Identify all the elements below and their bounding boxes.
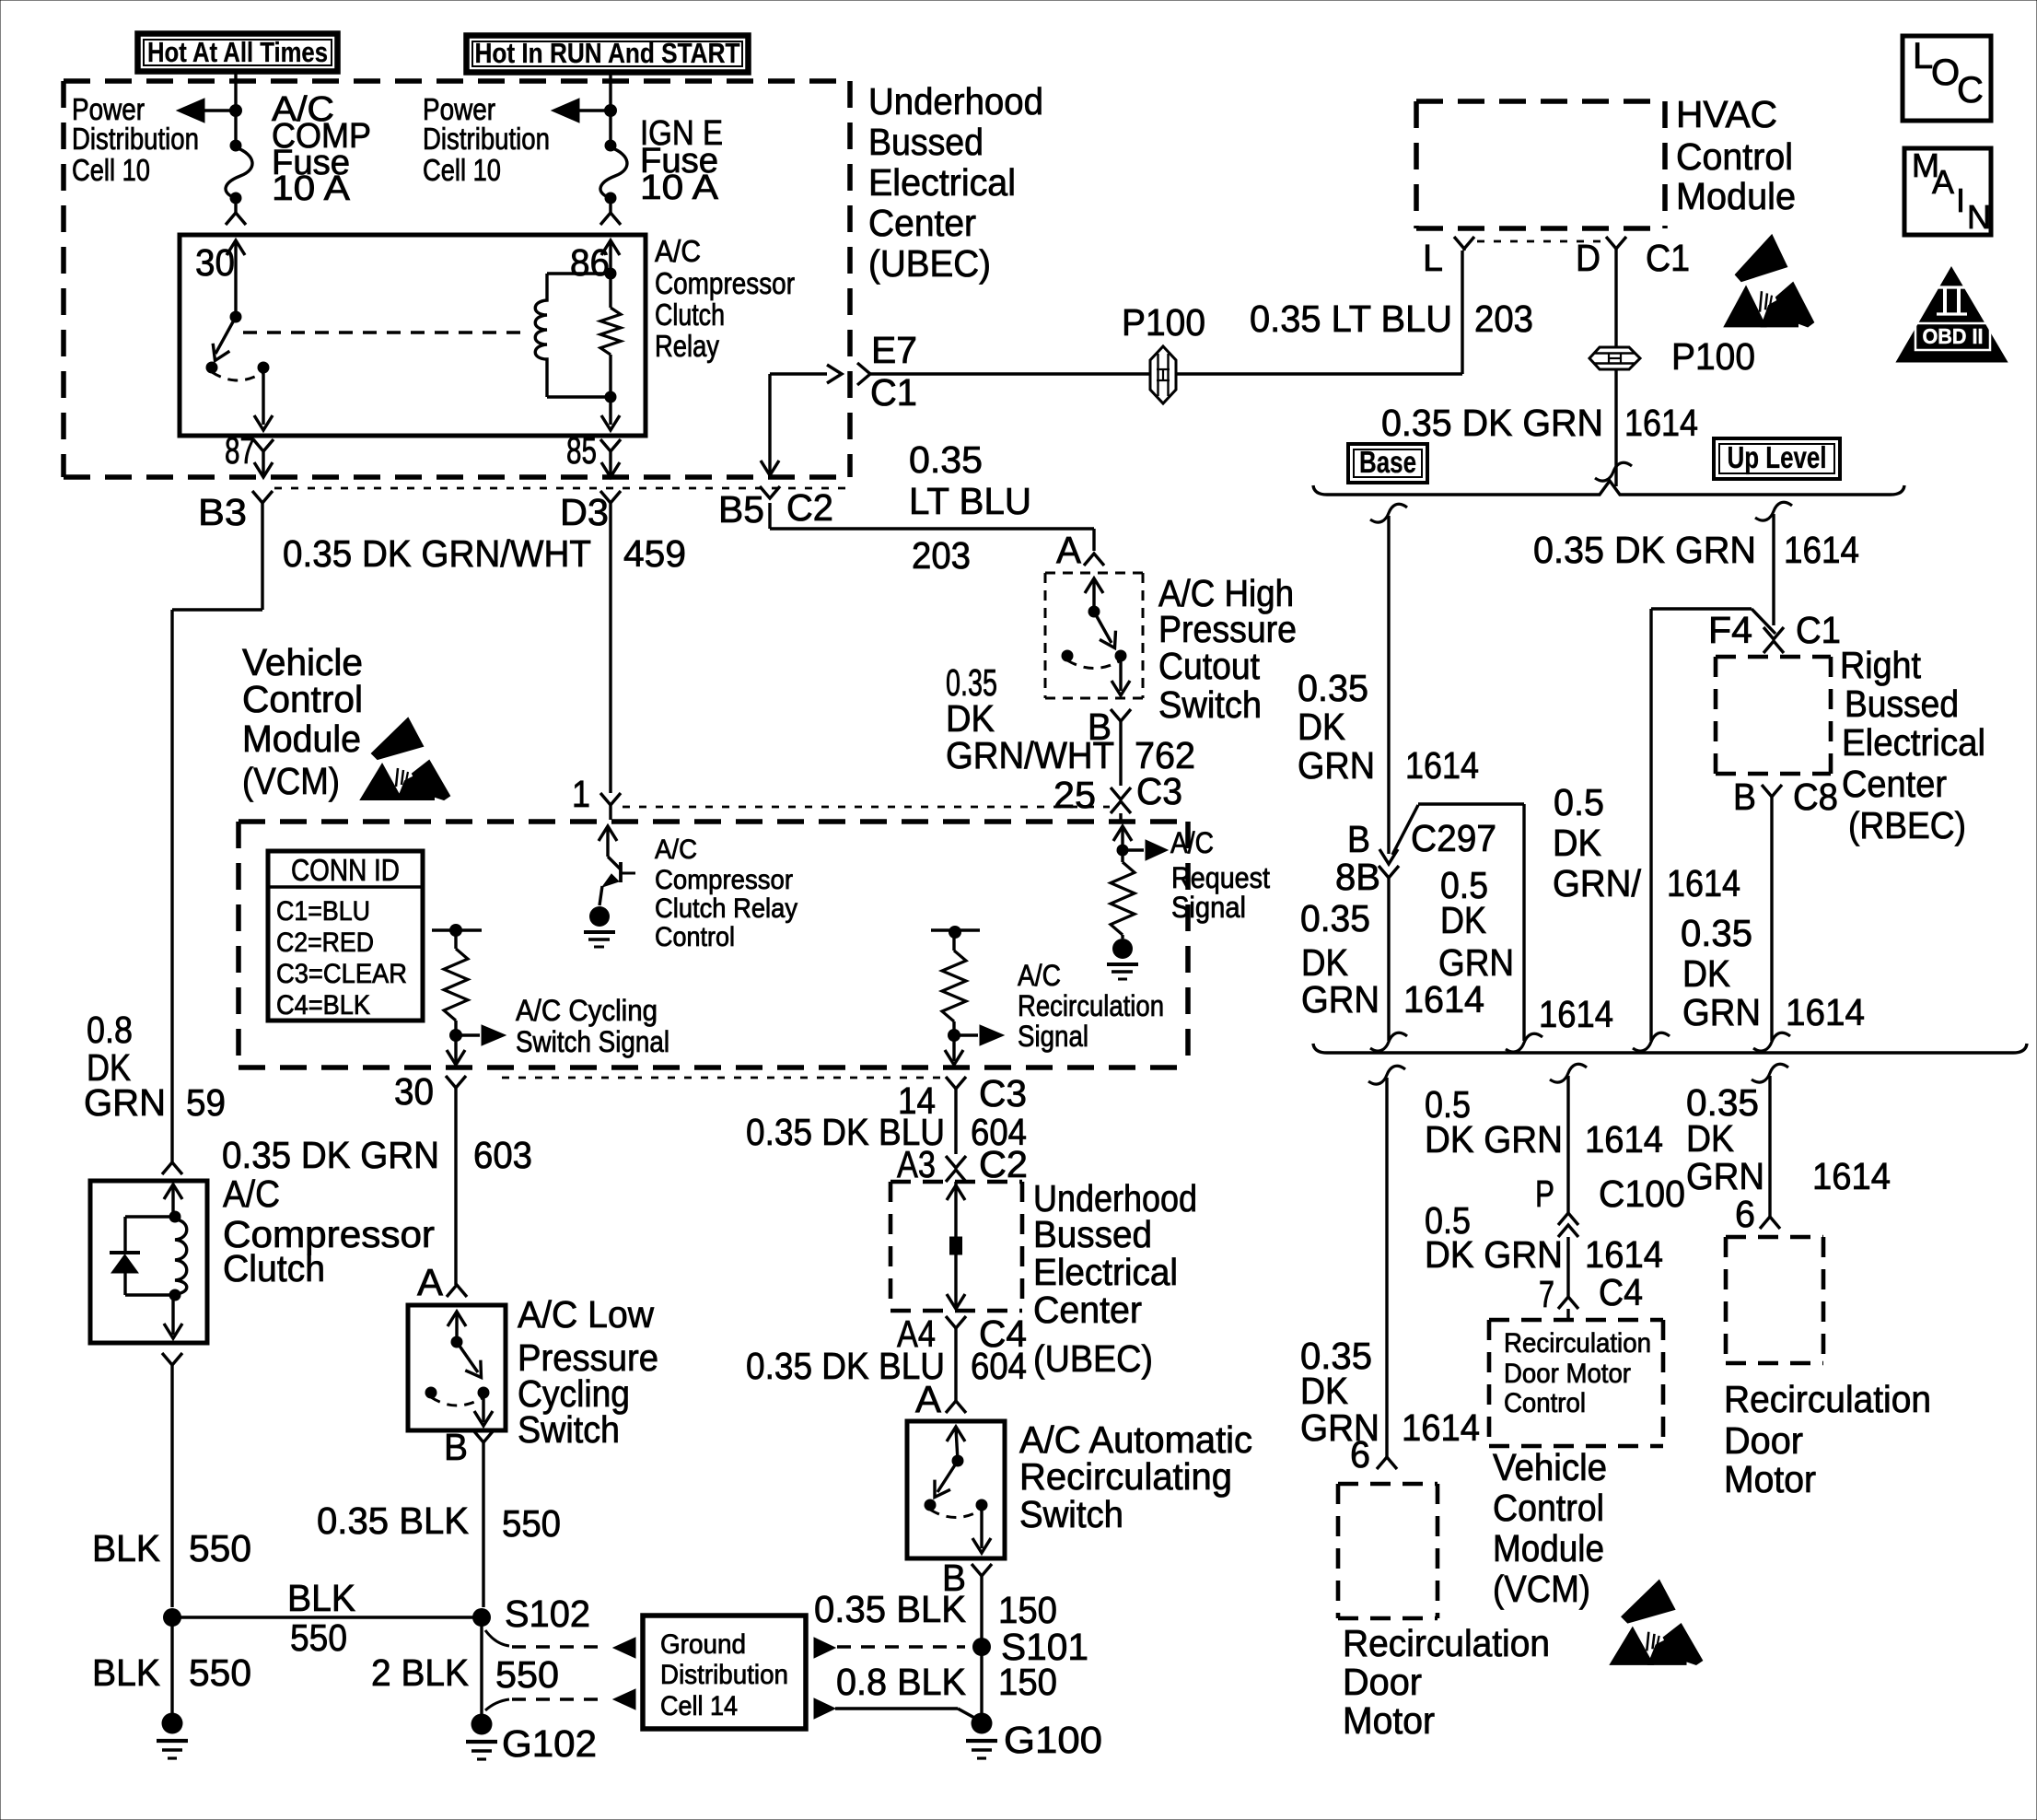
svg-text:0.35 DK GRN: 0.35 DK GRN bbox=[1381, 402, 1603, 444]
svg-text:550: 550 bbox=[189, 1651, 251, 1694]
wire: D3 to VCM pin 1 (459) bbox=[609, 503, 611, 793]
svg-text:Cutout: Cutout bbox=[1158, 645, 1261, 687]
left Recirculation Door Motor dashed box bbox=[1338, 1482, 1438, 1487]
svg-text:GRN/WHT: GRN/WHT bbox=[946, 734, 1114, 776]
svg-text:Motor: Motor bbox=[1343, 1699, 1435, 1742]
svg-text:C4: C4 bbox=[1599, 1271, 1643, 1313]
svg-text:BLK: BLK bbox=[92, 1651, 160, 1694]
svg-text:Hot At All Times: Hot At All Times bbox=[147, 36, 328, 68]
label box: Hot At All Times bbox=[138, 34, 338, 72]
svg-text:D3: D3 bbox=[560, 491, 609, 533]
svg-text:10 A: 10 A bbox=[272, 169, 351, 208]
svg-text:HVAC: HVAC bbox=[1676, 93, 1777, 135]
arrow and label: A/C Recirculation Signal bbox=[954, 1033, 978, 1036]
svg-text:86: 86 bbox=[570, 241, 610, 284]
svg-text:DK: DK bbox=[1686, 1117, 1734, 1160]
svg-text:1614: 1614 bbox=[1402, 1406, 1480, 1449]
svg-text:GRN: GRN bbox=[1686, 1155, 1764, 1197]
svg-text:A3: A3 bbox=[897, 1143, 936, 1185]
svg-text:Distribution: Distribution bbox=[72, 122, 199, 156]
svg-text:Switch: Switch bbox=[518, 1408, 620, 1451]
relay coil bbox=[547, 272, 611, 274]
svg-text:Switch: Switch bbox=[1019, 1493, 1123, 1535]
resistor: A/C cycling switch signal bbox=[432, 928, 482, 931]
svg-text:203: 203 bbox=[912, 534, 971, 577]
svg-text:Signal: Signal bbox=[1171, 891, 1246, 924]
svg-text:Door: Door bbox=[1724, 1419, 1803, 1462]
svg-text:1: 1 bbox=[572, 773, 590, 815]
svg-text:Bussed: Bussed bbox=[868, 121, 984, 163]
svg-text:A: A bbox=[915, 1378, 942, 1420]
wire: B5 to cutout switch A (0.35 LT BLU 203) bbox=[768, 503, 771, 529]
connector chevron below IGN E fuse bbox=[609, 204, 611, 213]
svg-text:6: 6 bbox=[1735, 1193, 1755, 1235]
svg-text:Electrical: Electrical bbox=[1033, 1251, 1178, 1293]
svg-text:Electrical: Electrical bbox=[1842, 721, 1985, 764]
right Recirculation Door Motor dashed box bbox=[1726, 1235, 1823, 1240]
connector chevron below A/C COMP fuse bbox=[234, 204, 237, 213]
wire: RBEC pin B to lower harness bbox=[1770, 797, 1773, 1041]
svg-text:Clutch: Clutch bbox=[223, 1247, 325, 1289]
svg-text:Vehicle: Vehicle bbox=[1493, 1446, 1607, 1488]
svg-text:P100: P100 bbox=[1122, 301, 1205, 344]
svg-text:59: 59 bbox=[186, 1081, 226, 1124]
fuse element inside UBEC box bbox=[954, 1182, 957, 1237]
svg-text:Distribution: Distribution bbox=[660, 1660, 788, 1690]
svg-text:A/C: A/C bbox=[223, 1172, 280, 1215]
svg-text:P: P bbox=[1535, 1172, 1554, 1215]
relay pin 85 leg bbox=[609, 397, 611, 425]
clutch relay control driver and ground bbox=[599, 826, 617, 841]
svg-text:Module: Module bbox=[1676, 175, 1796, 217]
svg-text:A/C: A/C bbox=[1018, 959, 1061, 992]
label box: Base bbox=[1348, 444, 1427, 483]
wire: Base branch lower bbox=[1387, 878, 1390, 1041]
svg-text:Motor: Motor bbox=[1724, 1458, 1816, 1500]
svg-text:Cell 10: Cell 10 bbox=[72, 153, 150, 187]
svg-text:A/C: A/C bbox=[655, 834, 697, 865]
symbol: LOC bbox=[1903, 36, 1991, 121]
svg-text:(VCM): (VCM) bbox=[242, 760, 340, 802]
svg-text:0.35 BLK: 0.35 BLK bbox=[317, 1499, 469, 1542]
svg-text:S102: S102 bbox=[505, 1592, 590, 1635]
svg-text:150: 150 bbox=[998, 1661, 1057, 1703]
svg-text:Recirculation: Recirculation bbox=[1504, 1328, 1651, 1359]
svg-text:0.8: 0.8 bbox=[87, 1009, 133, 1051]
svg-text:C297: C297 bbox=[1411, 817, 1496, 859]
svg-text:7: 7 bbox=[1539, 1273, 1554, 1315]
svg-text:550: 550 bbox=[189, 1527, 251, 1569]
wire: Base branch upper bbox=[1370, 504, 1407, 522]
svg-text:GRN: GRN bbox=[84, 1081, 166, 1124]
svg-text:OBD II: OBD II bbox=[1923, 324, 1984, 348]
svg-text:Compressor: Compressor bbox=[655, 266, 795, 300]
svg-text:Control: Control bbox=[655, 922, 735, 952]
svg-text:I: I bbox=[1956, 181, 1965, 219]
svg-text:(RBEC): (RBEC) bbox=[1848, 804, 1966, 846]
svg-text:G102: G102 bbox=[502, 1722, 597, 1765]
svg-text:1614: 1614 bbox=[1784, 529, 1859, 571]
relay switch contacts bbox=[230, 311, 242, 323]
wire: left recirculation door motor feed bbox=[1368, 1066, 1405, 1084]
svg-text:Right: Right bbox=[1840, 644, 1922, 686]
svg-text:550: 550 bbox=[502, 1502, 561, 1545]
svg-text:C: C bbox=[1957, 70, 1984, 111]
brace: harness split (top) bbox=[1313, 481, 1904, 495]
svg-text:Control: Control bbox=[1493, 1487, 1604, 1529]
svg-text:10 A: 10 A bbox=[640, 169, 719, 207]
svg-text:A: A bbox=[1932, 163, 1954, 201]
svg-text:C4=BLK: C4=BLK bbox=[276, 990, 370, 1021]
wire: Up Level branch bbox=[1755, 502, 1792, 520]
svg-text:(UBEC): (UBEC) bbox=[868, 242, 991, 285]
svg-text:0.35: 0.35 bbox=[1300, 897, 1370, 939]
connector face dashed line (VCM bottom) bbox=[502, 1077, 947, 1079]
svg-text:Clutch: Clutch bbox=[655, 297, 725, 332]
svg-text:Module: Module bbox=[1493, 1527, 1604, 1569]
svg-text:1614: 1614 bbox=[1539, 993, 1613, 1035]
svg-text:A/C: A/C bbox=[655, 234, 701, 268]
svg-text:0.35: 0.35 bbox=[1298, 667, 1368, 709]
svg-text:Up Level: Up Level bbox=[1728, 440, 1827, 474]
ESD symbol (VCM) bbox=[361, 718, 449, 799]
svg-text:30: 30 bbox=[195, 241, 235, 284]
splice P100 lens on D wire bbox=[1589, 347, 1640, 369]
svg-text:Recirculation: Recirculation bbox=[1018, 989, 1164, 1022]
svg-text:C100: C100 bbox=[1599, 1172, 1685, 1215]
fuse: IGN E Fuse 10 A bbox=[600, 147, 627, 197]
svg-text:DK GRN: DK GRN bbox=[1425, 1118, 1563, 1161]
arrow and label: A/C Cycling Switch Signal bbox=[456, 1033, 480, 1036]
junction dot left / S102 link wire bbox=[163, 1608, 181, 1627]
VCM Recirculation Door Motor Control dashed box bbox=[1489, 1318, 1663, 1323]
svg-text:Bussed: Bussed bbox=[1845, 682, 1959, 725]
svg-text:Electrical: Electrical bbox=[868, 161, 1016, 204]
svg-text:Recirculating: Recirculating bbox=[1019, 1455, 1232, 1498]
svg-text:B: B bbox=[1733, 776, 1756, 818]
svg-text:Signal: Signal bbox=[1018, 1020, 1088, 1053]
svg-text:P100: P100 bbox=[1671, 335, 1755, 378]
svg-text:BLK: BLK bbox=[92, 1527, 160, 1569]
svg-text:1614: 1614 bbox=[1403, 978, 1484, 1021]
svg-text:C1: C1 bbox=[1796, 609, 1841, 651]
arrows from Ground Distribution to S101 and G100 bbox=[814, 1638, 835, 1658]
svg-text:DK: DK bbox=[1553, 822, 1601, 864]
symbol: MAIN bbox=[1904, 148, 1991, 235]
relay pin 87 leg bbox=[262, 367, 264, 425]
arrow and label: A/C Request Signal bbox=[1123, 848, 1144, 851]
wire: right recirculation door motor feed bbox=[1752, 1064, 1788, 1082]
svg-text:1614: 1614 bbox=[1812, 1155, 1891, 1197]
svg-text:BLK: BLK bbox=[287, 1577, 355, 1619]
svg-text:87: 87 bbox=[225, 429, 255, 472]
svg-text:A: A bbox=[1056, 529, 1082, 571]
ground G102 bbox=[471, 1714, 493, 1735]
svg-text:Switch Signal: Switch Signal bbox=[516, 1025, 669, 1058]
wire: F4 branch to lower harness (0.5 DK GRN/ 1614) bbox=[1752, 609, 1775, 634]
svg-text:B3: B3 bbox=[198, 491, 247, 533]
svg-text:C3: C3 bbox=[979, 1072, 1027, 1114]
symbol: OBD II triangle bbox=[1898, 269, 2006, 361]
svg-text:0.35: 0.35 bbox=[909, 438, 983, 481]
svg-text:550: 550 bbox=[495, 1653, 559, 1696]
svg-text:0.35: 0.35 bbox=[1681, 912, 1752, 954]
svg-text:Hot In RUN And START: Hot In RUN And START bbox=[475, 37, 740, 69]
svg-text:A/C Cycling: A/C Cycling bbox=[516, 994, 658, 1027]
wire: VCM recirc door motor control feed bbox=[1550, 1064, 1587, 1082]
svg-text:Base: Base bbox=[1359, 445, 1416, 479]
label box: Up Level bbox=[1714, 438, 1840, 479]
fuse: A/C COMP Fuse 10 A bbox=[226, 147, 252, 197]
A/C request signal resistor and ground bbox=[1113, 826, 1132, 841]
svg-text:C2: C2 bbox=[786, 486, 833, 529]
svg-text:A/C: A/C bbox=[1170, 826, 1214, 859]
svg-text:DK: DK bbox=[1440, 899, 1486, 941]
svg-text:D: D bbox=[1576, 237, 1600, 279]
svg-text:G100: G100 bbox=[1004, 1719, 1102, 1761]
dashed links to Ground Distribution Cell 14 bbox=[485, 1630, 509, 1646]
svg-text:0.35 DK GRN/WHT: 0.35 DK GRN/WHT bbox=[283, 532, 591, 575]
UBEC module dashed box bbox=[64, 78, 850, 84]
ESD symbol (bottom VCM) bbox=[1611, 1581, 1702, 1664]
wire: recirc signal to pin 14 bbox=[952, 1035, 955, 1061]
svg-text:CONN ID: CONN ID bbox=[291, 853, 400, 887]
svg-text:C2=RED: C2=RED bbox=[276, 927, 374, 958]
svg-text:85: 85 bbox=[566, 429, 597, 472]
svg-text:C1: C1 bbox=[1646, 237, 1690, 279]
svg-text:Center: Center bbox=[868, 202, 976, 244]
wire: E7 to HVAC pin L (0.35 LT BLU 203) bbox=[870, 372, 1462, 375]
svg-text:A/C Low: A/C Low bbox=[518, 1293, 654, 1336]
svg-text:1614: 1614 bbox=[1405, 744, 1479, 787]
svg-text:0.35 DK GRN: 0.35 DK GRN bbox=[222, 1134, 439, 1176]
VCM dashed box bbox=[239, 819, 1188, 824]
svg-text:1614: 1614 bbox=[1667, 862, 1740, 904]
HVAC Control Module dashed box bbox=[1416, 99, 1665, 104]
wire: C297 branch (0.5 DK GRN 1614) bbox=[1418, 802, 1524, 805]
svg-text:0.35 LT BLU: 0.35 LT BLU bbox=[1250, 297, 1452, 340]
svg-text:F4: F4 bbox=[1708, 609, 1752, 651]
relay K1 box: A/C Compressor Clutch Relay bbox=[180, 235, 646, 436]
svg-text:550: 550 bbox=[290, 1616, 347, 1659]
svg-text:Door Motor: Door Motor bbox=[1504, 1359, 1631, 1389]
svg-text:Underhood: Underhood bbox=[868, 80, 1043, 122]
svg-text:L: L bbox=[1913, 36, 1933, 76]
arrow: to Power Distribution Cell 10 bbox=[198, 109, 236, 111]
svg-text:B5: B5 bbox=[718, 488, 764, 531]
svg-text:E7: E7 bbox=[871, 329, 917, 371]
wire: B3 to A/C compressor clutch (0.8 DK GRN 59) bbox=[261, 503, 263, 610]
svg-text:C3=CLEAR: C3=CLEAR bbox=[276, 959, 407, 989]
svg-text:Cell 14: Cell 14 bbox=[660, 1691, 738, 1721]
svg-text:(VCM): (VCM) bbox=[1493, 1568, 1590, 1610]
svg-text:25: 25 bbox=[1053, 774, 1096, 816]
arrow: to Power Distribution Cell 10 (ignition) bbox=[573, 109, 611, 111]
svg-text:30: 30 bbox=[394, 1070, 434, 1113]
strain relief on D wire bbox=[1595, 462, 1632, 481]
svg-text:Clutch Relay: Clutch Relay bbox=[655, 893, 797, 924]
svg-text:Center: Center bbox=[1033, 1289, 1142, 1331]
label box: Hot In RUN And START bbox=[467, 36, 749, 73]
svg-text:DK: DK bbox=[1682, 952, 1730, 995]
svg-text:GRN: GRN bbox=[1301, 978, 1379, 1021]
svg-text:8B: 8B bbox=[1335, 856, 1380, 898]
svg-text:6: 6 bbox=[1350, 1433, 1370, 1476]
svg-text:0.5: 0.5 bbox=[1554, 781, 1604, 823]
wire: HVAC pin D down (0.35 DK GRN 1614) bbox=[1614, 249, 1617, 346]
svg-text:Relay: Relay bbox=[655, 329, 719, 363]
svg-text:0.35 DK GRN: 0.35 DK GRN bbox=[1533, 529, 1756, 571]
svg-text:B: B bbox=[444, 1426, 468, 1468]
svg-text:O: O bbox=[1931, 52, 1960, 93]
svg-text:DK GRN: DK GRN bbox=[1425, 1233, 1563, 1276]
svg-text:203: 203 bbox=[1474, 297, 1533, 340]
svg-text:B: B bbox=[1347, 818, 1370, 860]
svg-text:Cell 10: Cell 10 bbox=[423, 153, 501, 187]
svg-text:Module: Module bbox=[242, 717, 361, 760]
table: CONN ID bbox=[268, 851, 423, 1021]
connector face dashed line (UBEC bottom) bbox=[274, 487, 845, 490]
connector face dashed line (HVAC) bbox=[1477, 240, 1609, 243]
svg-text:L: L bbox=[1423, 237, 1443, 279]
svg-text:C1: C1 bbox=[870, 371, 917, 414]
splice P100 grommet on LT BLU wire bbox=[1150, 346, 1176, 403]
svg-text:603: 603 bbox=[473, 1134, 532, 1176]
connector face dashed line (VCM top) bbox=[623, 806, 1110, 809]
svg-text:Control: Control bbox=[1676, 135, 1793, 178]
svg-text:Control: Control bbox=[1504, 1388, 1586, 1418]
svg-text:Recirculation: Recirculation bbox=[1343, 1622, 1550, 1664]
wire: battery feed into A/C COMP fuse bbox=[234, 74, 237, 146]
svg-text:N: N bbox=[1967, 198, 1991, 236]
svg-text:2 BLK: 2 BLK bbox=[371, 1651, 469, 1694]
svg-text:A: A bbox=[417, 1261, 444, 1303]
svg-text:604: 604 bbox=[971, 1345, 1027, 1387]
svg-text:1614: 1614 bbox=[1786, 991, 1865, 1033]
A/C Compressor Clutch component bbox=[162, 1162, 182, 1174]
svg-text:Switch: Switch bbox=[1158, 683, 1262, 726]
svg-text:GRN: GRN bbox=[1682, 991, 1761, 1033]
svg-text:1614: 1614 bbox=[1585, 1233, 1663, 1276]
svg-text:Request: Request bbox=[1171, 861, 1270, 894]
svg-text:Bussed: Bussed bbox=[1033, 1213, 1152, 1255]
RBEC dashed box bbox=[1716, 655, 1831, 659]
resistor: A/C recirculation signal bbox=[931, 928, 980, 931]
svg-text:LT BLU: LT BLU bbox=[909, 480, 1031, 522]
svg-text:1614: 1614 bbox=[1585, 1118, 1663, 1161]
wire: cycling resistor to pin 30 bbox=[454, 1035, 457, 1062]
ground G100 bbox=[972, 1713, 993, 1734]
pin E7 C1 on UBEC right edge bbox=[857, 363, 870, 385]
relay dashed actuation link bbox=[243, 331, 529, 333]
svg-text:459: 459 bbox=[623, 532, 686, 575]
svg-text:GRN/: GRN/ bbox=[1553, 862, 1642, 904]
svg-text:(UBEC): (UBEC) bbox=[1033, 1337, 1153, 1380]
svg-text:0.35 BLK: 0.35 BLK bbox=[814, 1588, 966, 1630]
svg-text:C2: C2 bbox=[979, 1143, 1028, 1185]
ESD symbol (HVAC) bbox=[1725, 236, 1813, 327]
svg-text:Distribution: Distribution bbox=[423, 122, 550, 156]
svg-text:Center: Center bbox=[1842, 763, 1947, 805]
svg-text:GRN: GRN bbox=[1298, 744, 1375, 787]
svg-text:0.8 BLK: 0.8 BLK bbox=[836, 1661, 966, 1703]
svg-text:1614: 1614 bbox=[1624, 402, 1698, 444]
svg-text:Recirculation: Recirculation bbox=[1724, 1378, 1931, 1420]
svg-text:Control: Control bbox=[242, 678, 363, 720]
UBEC fuse dashed box (small) bbox=[890, 1180, 1022, 1184]
box: Ground Distribution Cell 14 bbox=[643, 1616, 806, 1729]
wire: B5 to E7 internal UBEC link bbox=[768, 374, 771, 473]
svg-text:DK: DK bbox=[1298, 706, 1345, 748]
ground (compressor clutch) bbox=[162, 1713, 183, 1734]
svg-text:C8: C8 bbox=[1793, 776, 1838, 818]
brace: harness merge (bottom) bbox=[1313, 1044, 2027, 1053]
relay resistor bbox=[609, 274, 611, 308]
svg-text:Door: Door bbox=[1343, 1661, 1422, 1703]
wire: ignition feed into IGN E fuse bbox=[609, 74, 611, 146]
junction S101 bbox=[972, 1638, 991, 1656]
svg-text:Compressor: Compressor bbox=[655, 865, 793, 895]
svg-text:Ground: Ground bbox=[660, 1629, 746, 1660]
svg-text:C3: C3 bbox=[1136, 770, 1182, 812]
svg-text:C1=BLU: C1=BLU bbox=[276, 896, 370, 927]
